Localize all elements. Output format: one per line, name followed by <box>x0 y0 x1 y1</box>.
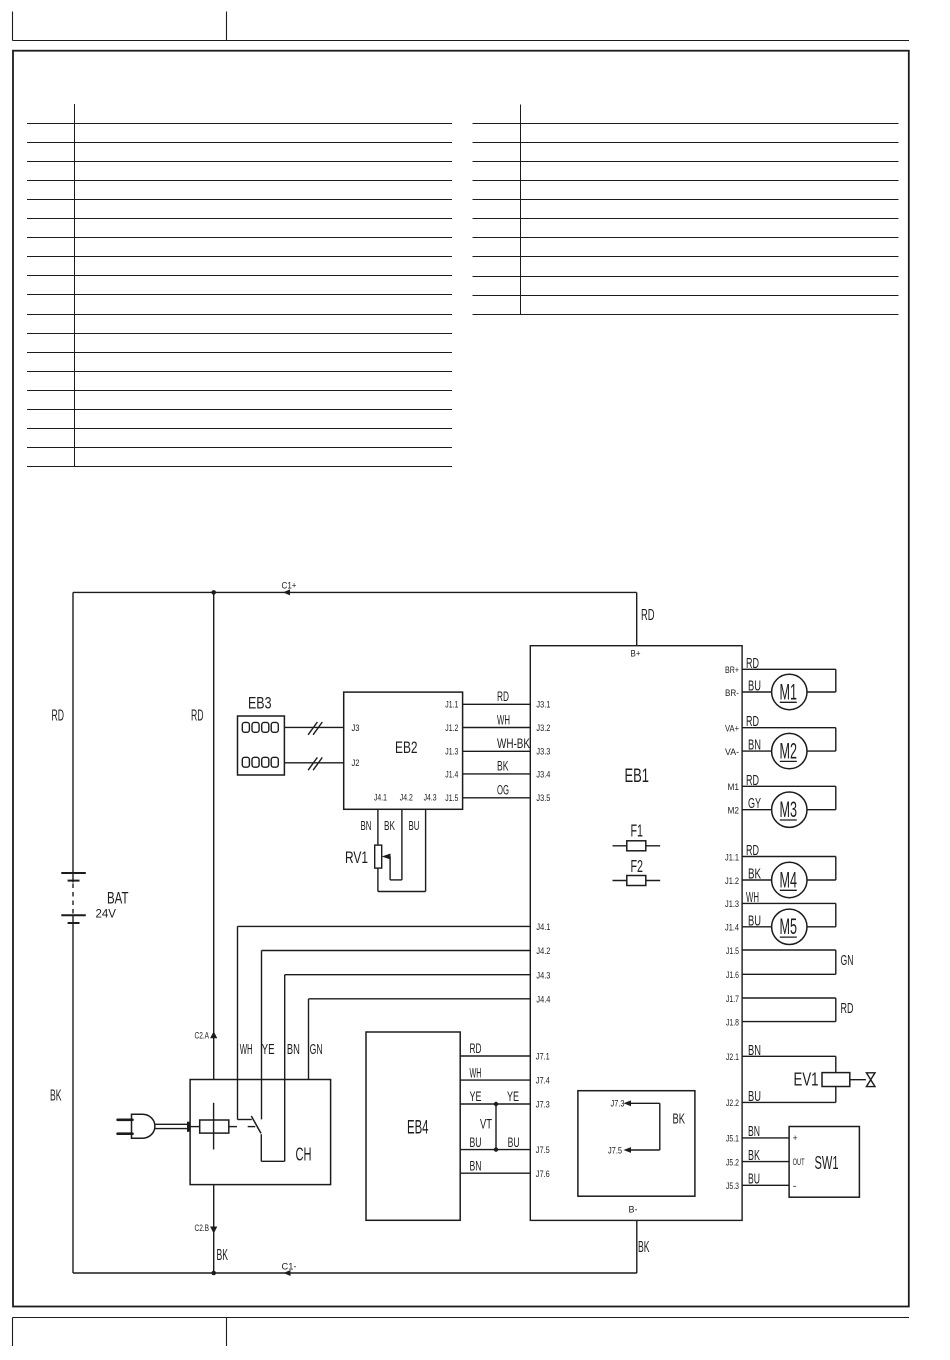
wire C2 rail from positive rail down to CH <box>213 592 215 1079</box>
svg-text:M2: M2 <box>728 806 740 817</box>
svg-text:YE: YE <box>470 1089 482 1104</box>
svg-text:BN: BN <box>287 1042 300 1058</box>
svg-text:J1.5: J1.5 <box>726 946 739 957</box>
wire positive rail from BAT+ to B+ <box>73 592 637 872</box>
svg-text:SW1: SW1 <box>815 1152 839 1173</box>
pin label VA- of EB1 <box>725 747 739 758</box>
wire EB1 J5.1 to SW1 colour BN <box>742 1124 789 1140</box>
battery BAT 24V <box>61 873 128 1273</box>
potentiometer RV1 <box>345 845 426 891</box>
internal jumper J7.3 to J7.5 with arrows colour BK <box>608 1099 685 1157</box>
svg-text:BK: BK <box>50 1088 62 1105</box>
motor M2 <box>772 733 807 768</box>
pin label J4.3 of EB2 <box>424 793 437 804</box>
switch unit SW1 <box>789 1127 859 1198</box>
svg-text:M1: M1 <box>780 679 798 704</box>
svg-text:BN: BN <box>748 1043 761 1059</box>
svg-text:OUT: OUT <box>793 1157 805 1167</box>
wire label RD on B+ drop wire <box>641 607 655 624</box>
svg-text:WH: WH <box>497 712 510 727</box>
pin label J4.2 of EB2 <box>400 793 413 804</box>
wire EB2 J4.3 to RV1 bottom colour BU <box>409 809 426 891</box>
pin label BR+ of EB1 <box>725 665 739 676</box>
svg-text:RD: RD <box>52 708 65 725</box>
svg-text:BU: BU <box>508 1135 520 1150</box>
solenoid valve EV1 <box>794 1069 876 1090</box>
wire EB4 to EB1 J7.6 colour BN <box>460 1158 530 1173</box>
pin label J2.2 of EB1 <box>726 1098 739 1109</box>
svg-text:J3: J3 <box>352 723 360 734</box>
pin label J1.1 of EB2 <box>445 700 458 711</box>
svg-text:B-: B- <box>629 1205 638 1216</box>
svg-text:RD: RD <box>470 1041 482 1056</box>
svg-text:RD: RD <box>191 708 204 725</box>
wire EB1 M1 to motor M3 colour RD <box>742 773 836 810</box>
svg-text:J5.2: J5.2 <box>726 1157 739 1168</box>
pin label J5.1 of EB1 <box>726 1134 739 1145</box>
svg-text:B+: B+ <box>631 649 641 660</box>
svg-text:VA+: VA+ <box>725 724 739 735</box>
wire bus EB3 to EB2 pin J2 <box>284 757 343 770</box>
pin label J1.3 of EB2 <box>445 747 458 758</box>
wire EB1 BR+ to motor M1 colour RD <box>742 656 836 692</box>
wire EB4 to EB1 J7.1 colour RD <box>460 1041 530 1056</box>
wire jumper loop J1.7 to J1.8 colour RD <box>742 998 853 1022</box>
terminal label OUT of SW1 <box>793 1157 805 1167</box>
svg-text:BU: BU <box>748 679 761 695</box>
svg-text:BU: BU <box>470 1135 482 1150</box>
wire EB2 J1.5 to EB1 J3.5 colour OG <box>463 783 531 798</box>
wire EB1 J4.4 to CH colour GN <box>309 999 531 1080</box>
wire EB4 to EB1 J7.4 colour WH <box>460 1065 530 1080</box>
terminal label + of SW1 <box>793 1133 798 1143</box>
pin label J1.2 of EB1 <box>725 876 739 887</box>
pin label J1.3 of EB1 <box>725 899 739 910</box>
wire EB2 J1.1 to EB1 J3.1 colour RD <box>463 689 531 704</box>
svg-text:BK: BK <box>748 1148 760 1164</box>
internal link box of EB1 <box>578 1091 695 1197</box>
charger CH <box>190 1080 331 1185</box>
pin label J7.5 of EB1 <box>536 1145 550 1156</box>
svg-text:VA-: VA- <box>725 747 739 758</box>
svg-text:J4.2: J4.2 <box>536 946 550 957</box>
svg-text:EB1: EB1 <box>625 765 650 787</box>
pin label J3.3 of EB1 <box>536 747 550 758</box>
svg-text:J7.1: J7.1 <box>536 1052 550 1063</box>
svg-text:BK: BK <box>217 1247 229 1264</box>
svg-text:J4.1: J4.1 <box>536 922 550 933</box>
wire label BK on C2 return rail <box>217 1247 229 1264</box>
svg-text:J4.1: J4.1 <box>374 793 387 804</box>
svg-text:BU: BU <box>748 1089 761 1105</box>
svg-text:BU: BU <box>748 1172 760 1188</box>
svg-text:BU: BU <box>409 818 420 833</box>
pin label J2.1 of EB1 <box>726 1052 739 1063</box>
wire label BK on B- drop wire <box>638 1239 650 1256</box>
svg-text:BK: BK <box>673 1112 686 1128</box>
pin label J1.2 of EB2 <box>445 723 458 734</box>
svg-text:BK: BK <box>748 867 761 883</box>
svg-text:J5.1: J5.1 <box>726 1134 739 1145</box>
switch contact inside CH <box>238 1080 262 1134</box>
svg-text:J7.5: J7.5 <box>536 1145 550 1156</box>
svg-text:J3.2: J3.2 <box>536 723 550 734</box>
wire EB1 BR- to motor M1 colour BU <box>742 679 772 695</box>
pin label J4.3 of EB1 <box>536 970 550 981</box>
pin label J7.3 of EB1 <box>536 1100 550 1111</box>
junction dot C2 tap on positive rail <box>211 590 216 595</box>
wire EB2 J1.3 to EB1 J3.3 colour WH-BK <box>463 736 531 751</box>
svg-text:YE: YE <box>507 1089 519 1104</box>
svg-text:RD: RD <box>641 607 655 624</box>
wire label RD on battery positive wire <box>52 708 65 725</box>
svg-text:M4: M4 <box>780 867 798 892</box>
svg-text:EV1: EV1 <box>794 1069 819 1090</box>
svg-text:J7.6: J7.6 <box>536 1169 550 1180</box>
svg-text:GY: GY <box>748 796 761 812</box>
connector EB3 <box>238 695 285 776</box>
svg-text:J3.3: J3.3 <box>536 747 550 758</box>
junction dot VT top <box>494 1102 498 1106</box>
pin label J1.5 of EB1 <box>726 946 739 957</box>
svg-text:F1: F1 <box>631 821 644 841</box>
svg-text:J2.2: J2.2 <box>726 1098 739 1109</box>
svg-text:WH: WH <box>470 1065 482 1080</box>
svg-text:J5.3: J5.3 <box>726 1181 739 1192</box>
svg-text:C2.A: C2.A <box>195 1031 210 1042</box>
svg-text:M3: M3 <box>780 797 798 822</box>
motor M3 <box>772 792 807 827</box>
wire EB1 VA- to motor M2 colour BN <box>742 738 772 754</box>
svg-text:J1.3: J1.3 <box>725 899 739 910</box>
svg-text:BK: BK <box>497 759 509 774</box>
svg-text:C1-: C1- <box>282 1262 297 1273</box>
node C1- arrow and label <box>282 1262 297 1277</box>
fuse inside CH <box>190 1103 255 1150</box>
pin label J1.1 of EB1 <box>725 852 739 863</box>
svg-text:J3.5: J3.5 <box>536 793 550 804</box>
svg-text:BN: BN <box>748 738 761 754</box>
svg-text:J1.4: J1.4 <box>725 923 739 934</box>
wire VT link joining J7.3 and J7.5 wires <box>480 1104 496 1150</box>
svg-text:J7.3: J7.3 <box>611 1099 625 1110</box>
terminal label - of SW1 <box>793 1181 797 1191</box>
wire bus EB3 to EB2 pin J3 <box>284 722 343 735</box>
motor M4 <box>772 862 807 897</box>
svg-text:GN: GN <box>310 1042 323 1058</box>
wire label BK on battery negative wire <box>50 1088 62 1105</box>
pin label J4.1 of EB2 <box>374 793 387 804</box>
wire EB2 J4.2 to RV1 wiper colour BK <box>384 809 402 880</box>
module EB4 <box>366 1032 460 1220</box>
svg-text:EB3: EB3 <box>248 695 272 713</box>
junction dot VT bottom <box>494 1147 498 1151</box>
svg-text:J4.2: J4.2 <box>400 793 413 804</box>
node C1+ arrow and label <box>282 581 297 596</box>
svg-text:RD: RD <box>746 714 759 730</box>
svg-text:BR+: BR+ <box>725 665 739 676</box>
wire EB1 J4.2 to CH colour YE <box>262 951 531 1080</box>
pin label BR- of EB1 <box>725 688 739 699</box>
svg-text:BR-: BR- <box>725 688 739 699</box>
svg-text:J2.1: J2.1 <box>726 1052 739 1063</box>
svg-text:BK: BK <box>638 1239 650 1256</box>
svg-text:VT: VT <box>480 1117 492 1132</box>
control unit EB2 <box>344 692 463 809</box>
svg-text:WH: WH <box>240 1042 253 1058</box>
pin label J7.1 of EB1 <box>536 1052 550 1063</box>
pin label M1 of EB1 <box>728 782 740 793</box>
svg-text:J7.3: J7.3 <box>536 1100 550 1111</box>
svg-text:J1.4: J1.4 <box>445 769 458 780</box>
svg-text:J7.4: J7.4 <box>536 1076 550 1087</box>
svg-text:RD: RD <box>746 843 759 859</box>
pin label J4.1 of EB1 <box>536 922 550 933</box>
fuse F1 <box>613 821 661 851</box>
svg-text:CH: CH <box>296 1144 312 1165</box>
pin label J2 of EB2 <box>352 758 360 769</box>
wire C2 return rail from CH down to negative rail <box>213 1185 215 1273</box>
wire EB1 J1.1 to motor M4 colour RD <box>742 843 836 880</box>
main controller EB1 <box>530 646 742 1221</box>
svg-text:RD: RD <box>497 689 509 704</box>
svg-text:J1.3: J1.3 <box>445 747 458 758</box>
pin label J1.5 of EB2 <box>445 793 458 804</box>
pin label J1.8 of EB1 <box>726 1017 739 1028</box>
wire EB1 VA+ to motor M2 colour RD <box>742 714 836 751</box>
svg-text:-: - <box>793 1181 797 1191</box>
svg-text:BAT: BAT <box>107 890 129 908</box>
wire EB1 J1.2 to motor M4 colour BK <box>742 867 772 883</box>
svg-text:BN: BN <box>361 818 372 833</box>
svg-text:WH-BK: WH-BK <box>497 736 530 751</box>
svg-text:RD: RD <box>746 773 759 789</box>
wire EB2 J4.1 to RV1 top colour BN <box>361 809 378 845</box>
wire EB1 J4.1 to CH colour WH <box>238 926 531 1079</box>
wire EB1 J1.4 to motor M5 colour BU <box>742 913 772 929</box>
svg-text:RD: RD <box>746 656 759 672</box>
svg-text:J1.8: J1.8 <box>726 1017 739 1028</box>
svg-text:M2: M2 <box>780 738 798 763</box>
wire negative rail from BAT- to B- <box>73 1220 637 1273</box>
pin label B+ of EB1 <box>631 649 641 660</box>
pin label M2 of EB1 <box>728 806 740 817</box>
wire EB1 J4.3 to CH colour BN <box>285 975 531 1080</box>
svg-text:J4.3: J4.3 <box>424 793 437 804</box>
wire EB1 J5.2 to SW1 colour BK <box>742 1148 789 1164</box>
pin label J4.2 of EB1 <box>536 946 550 957</box>
svg-text:J4.3: J4.3 <box>536 970 550 981</box>
svg-text:RD: RD <box>841 1001 854 1017</box>
svg-text:EB4: EB4 <box>407 1117 429 1139</box>
svg-text:J4.4: J4.4 <box>536 994 550 1005</box>
svg-text:M5: M5 <box>780 914 798 939</box>
svg-text:J1.6: J1.6 <box>726 970 739 981</box>
wire jumper loop J1.5 to J1.6 colour GN <box>742 950 853 974</box>
svg-text:C1+: C1+ <box>282 581 297 592</box>
svg-text:F2: F2 <box>631 856 644 876</box>
wire BN return inside CH <box>261 1080 284 1162</box>
svg-text:BK: BK <box>384 818 395 833</box>
motor M1 <box>772 674 807 709</box>
svg-text:24V: 24V <box>96 907 117 921</box>
wire EB2 J1.4 to EB1 J3.4 colour BK <box>463 759 531 774</box>
svg-text:BU: BU <box>748 913 761 929</box>
svg-text:J2: J2 <box>352 758 360 769</box>
pin label J5.3 of EB1 <box>726 1181 739 1192</box>
pin label J3.1 of EB1 <box>536 700 550 711</box>
pin label J3.5 of EB1 <box>536 793 550 804</box>
svg-text:WH: WH <box>746 890 759 906</box>
pin label J3.2 of EB1 <box>536 723 550 734</box>
node C2.B arrow and label <box>195 1223 218 1234</box>
svg-text:YE: YE <box>262 1042 275 1058</box>
pin label J1.7 of EB1 <box>726 994 739 1005</box>
wire EB1 M2 to motor M3 colour GY <box>742 796 772 812</box>
svg-text:J1.7: J1.7 <box>726 994 739 1005</box>
svg-text:J1.1: J1.1 <box>445 700 458 711</box>
wire EB1 J5.3 to SW1 colour BU <box>742 1172 789 1188</box>
wire EB2 J1.2 to EB1 J3.2 colour WH <box>463 712 531 727</box>
pin label B- of EB1 <box>629 1205 638 1216</box>
wire EB4 to EB1 J7.3 colour YE <box>460 1089 530 1104</box>
svg-text:J1.2: J1.2 <box>445 723 458 734</box>
pin label J7.4 of EB1 <box>536 1076 550 1087</box>
svg-text:EB2: EB2 <box>395 739 418 757</box>
svg-text:J1.5: J1.5 <box>445 793 458 804</box>
pin label J1.4 of EB1 <box>725 923 739 934</box>
motor M5 <box>772 909 807 944</box>
wire EB1 J2.1 to EV1 colour BN <box>742 1043 836 1073</box>
pin label J3 of EB2 <box>352 723 360 734</box>
svg-text:J1.1: J1.1 <box>725 852 739 863</box>
svg-text:M1: M1 <box>728 782 740 793</box>
svg-text:J3.4: J3.4 <box>536 769 550 780</box>
svg-text:C2.B: C2.B <box>195 1223 210 1234</box>
pin label J4.4 of EB1 <box>536 994 550 1005</box>
svg-text:+: + <box>793 1133 798 1143</box>
node C2.A arrow and label <box>195 1031 218 1042</box>
pin label J5.2 of EB1 <box>726 1157 739 1168</box>
fuse F2 <box>613 856 661 886</box>
svg-text:J1.2: J1.2 <box>725 876 739 887</box>
svg-text:RV1: RV1 <box>345 849 368 867</box>
svg-text:BN: BN <box>748 1124 760 1140</box>
pin label J1.4 of EB2 <box>445 769 458 780</box>
wire EB1 J1.3 to motor M5 colour WH <box>742 890 836 927</box>
pin label J1.6 of EB1 <box>726 970 739 981</box>
svg-text:OG: OG <box>497 783 509 798</box>
wire EB1 J2.2 to EV1 colour BU <box>742 1087 836 1105</box>
pin label J3.4 of EB1 <box>536 769 550 780</box>
wire label RD on C2 rail <box>191 708 204 725</box>
mains plug of CH <box>118 1114 189 1138</box>
svg-text:GN: GN <box>841 953 854 969</box>
svg-text:J3.1: J3.1 <box>536 700 550 711</box>
svg-text:BN: BN <box>470 1158 482 1173</box>
pin label VA+ of EB1 <box>725 724 739 735</box>
wire EB4 to EB1 J7.5 colour BU <box>460 1135 530 1150</box>
pin label J7.6 of EB1 <box>536 1169 550 1180</box>
junction dot C2 return on negative rail <box>211 1271 216 1276</box>
svg-text:J7.5: J7.5 <box>608 1146 622 1157</box>
